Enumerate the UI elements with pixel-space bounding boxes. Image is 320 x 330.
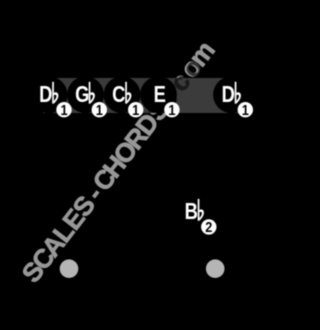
note circle E string4 <box>140 76 177 113</box>
note label Db on string6 <box>222 82 241 108</box>
svg-text:D: D <box>39 82 52 107</box>
finger number badge 1 under Db string6 <box>238 102 253 118</box>
finger number badge 2 under Bb string5 <box>201 219 216 235</box>
barre bar (fret 1) <box>43 78 238 113</box>
note label Db on string1 <box>39 82 58 108</box>
watermark dark layer over bar <box>16 35 221 288</box>
fret marker dot right <box>206 259 225 278</box>
watermark SCALES-CHORDS.com (light layer under fretboard bar) <box>16 35 221 288</box>
finger number badge 1 under Gb string2 <box>92 102 107 118</box>
svg-text:G: G <box>75 82 89 107</box>
note Bb string5 fret3 <box>185 199 204 225</box>
note circle Db string1 <box>31 76 68 113</box>
note circle Cb string3 <box>104 76 141 113</box>
svg-text:D: D <box>222 82 235 107</box>
finger number badge 1 under E string4 <box>164 102 179 118</box>
note label Gb on string2 <box>75 82 95 108</box>
finger number badge 1 under Cb string3 <box>128 102 143 118</box>
svg-text:2: 2 <box>205 219 212 235</box>
svg-text:E: E <box>154 82 166 107</box>
note circle Gb string2 <box>67 76 104 113</box>
finger number badge 1 under Db string1 <box>56 102 71 118</box>
note label E on string4 <box>154 82 166 107</box>
svg-text:C: C <box>112 82 125 107</box>
note label Cb on string3 <box>112 82 131 108</box>
fret marker dot left <box>60 259 79 278</box>
svg-text:B: B <box>185 199 198 224</box>
note circle Db string6 <box>213 76 250 113</box>
